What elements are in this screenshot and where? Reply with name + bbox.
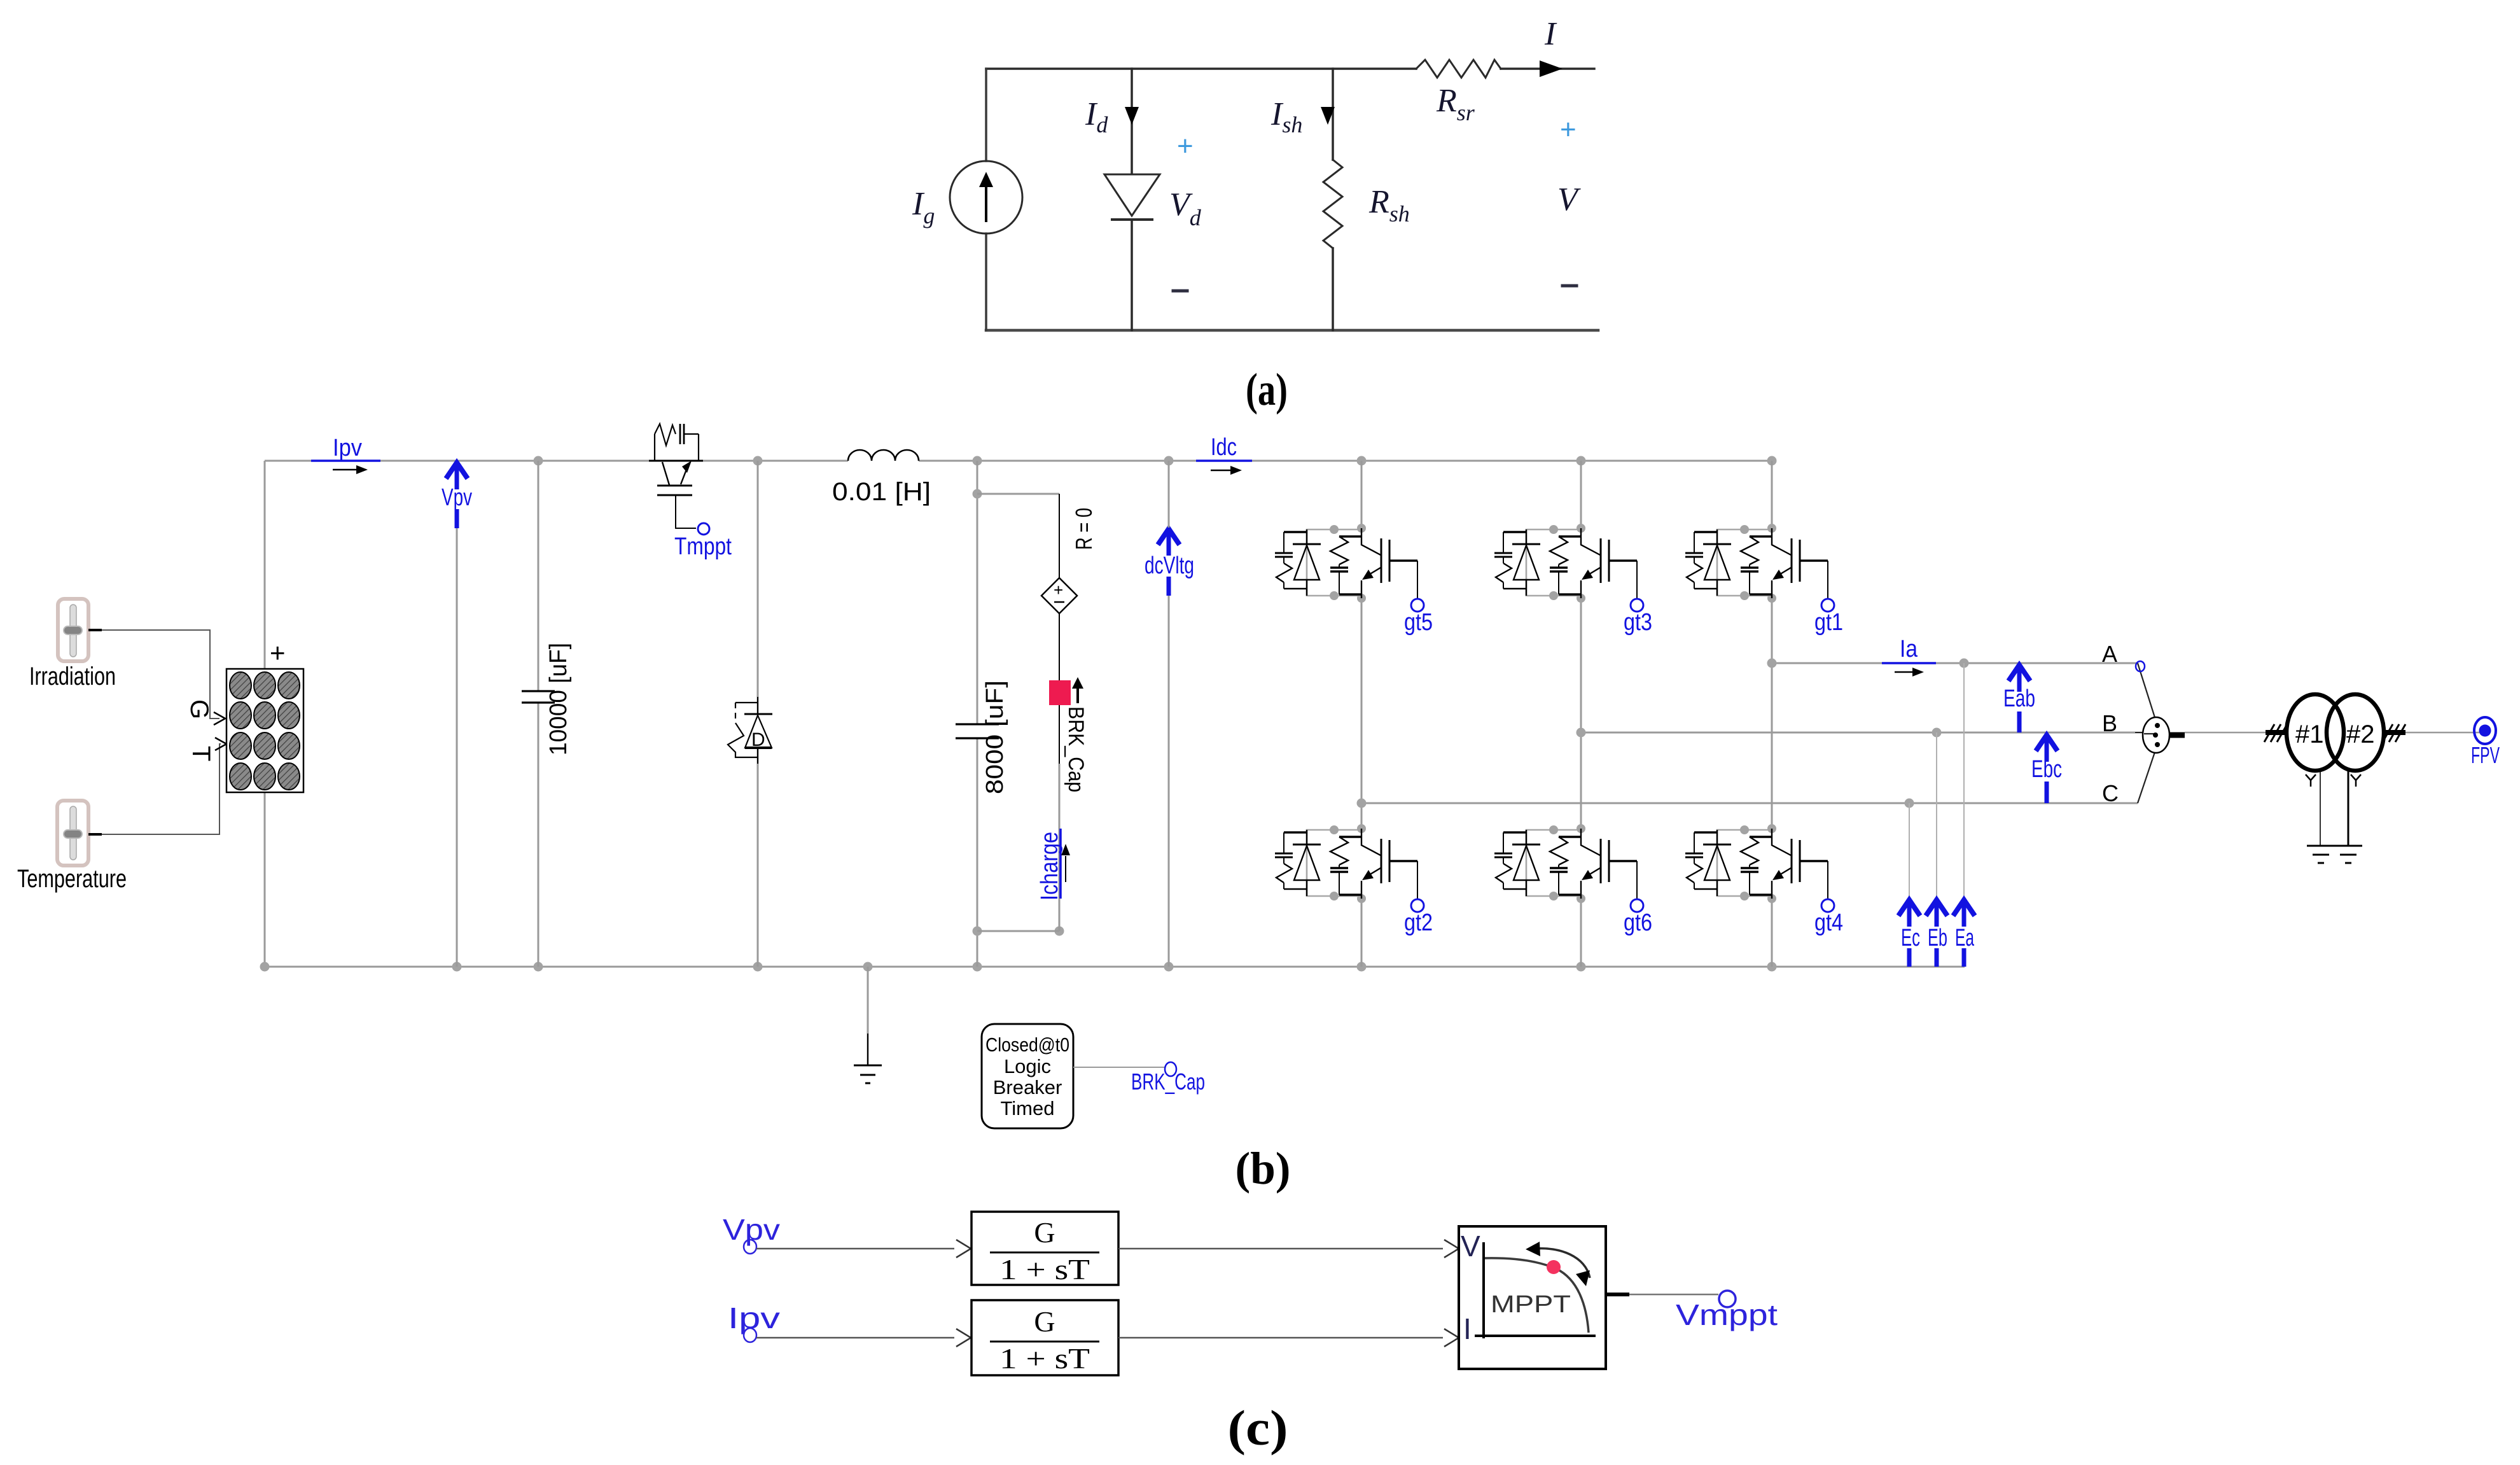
wire: phase C output bbox=[1361, 803, 2138, 804]
wire: Rsh branch vertical top bbox=[1332, 69, 1334, 160]
svg-text:1 + sT: 1 + sT bbox=[999, 1253, 1090, 1286]
svg-text:BRK_Cap: BRK_Cap bbox=[1064, 706, 1088, 792]
wire: Vpv to lag block bbox=[756, 1248, 954, 1250]
arrow Ish on Rsh branch bbox=[1321, 107, 1335, 125]
svg-text:T: T bbox=[187, 746, 215, 761]
svg-text:gt6: gt6 bbox=[1624, 909, 1652, 936]
output terminal circle bbox=[1719, 1291, 1736, 1307]
svg-text:(a): (a) bbox=[1246, 364, 1288, 415]
wire: winding 2 neutral to ground bbox=[2348, 771, 2349, 846]
voltmeter Eab arrow bbox=[2008, 665, 2030, 692]
voltmeter dcVltg arrow bbox=[1158, 529, 1180, 556]
wire: Temperature to PV T input bbox=[88, 744, 221, 834]
wire: charging source sub-branch bbox=[977, 494, 1059, 931]
current source Ig arrow bbox=[985, 181, 987, 221]
IGBT module gt2 bbox=[1275, 824, 1424, 912]
wire: PV array negative lead bbox=[264, 792, 266, 967]
svg-text:BRK_Cap: BRK_Cap bbox=[1131, 1069, 1205, 1095]
svg-text:Vpv: Vpv bbox=[723, 1213, 780, 1246]
svg-text:Idc: Idc bbox=[1211, 434, 1237, 461]
wire: Irradiation to PV G input bbox=[88, 630, 219, 718]
svg-text:Closed@t0: Closed@t0 bbox=[985, 1034, 1069, 1056]
svg-text:0.01 [H]: 0.01 [H] bbox=[832, 478, 931, 506]
svg-text:10000 [uF]: 10000 [uF] bbox=[545, 643, 572, 755]
svg-text:Vmppt: Vmppt bbox=[1676, 1298, 1778, 1331]
svg-text:#2: #2 bbox=[2346, 720, 2375, 748]
svg-text:Ec: Ec bbox=[1901, 925, 1920, 951]
svg-text:FPV: FPV bbox=[2471, 742, 2500, 768]
wire: bottom DC bus bbox=[265, 966, 1965, 968]
freewheel diode D bbox=[757, 697, 758, 764]
wire: bottom return node bbox=[986, 329, 1598, 332]
arrow I on output lead bbox=[1540, 60, 1563, 77]
voltmeter Eb arrow bbox=[1926, 900, 1947, 927]
freewheel diode snubber (dashed) bbox=[735, 702, 758, 703]
svg-text:+: + bbox=[1177, 130, 1194, 162]
svg-text:(b): (b) bbox=[1236, 1143, 1291, 1194]
wire: left branch verticals of current source Ig bbox=[985, 69, 987, 330]
wire: inverter leg 2 verticals bbox=[1580, 461, 1582, 967]
svg-text:+: + bbox=[270, 638, 286, 668]
chopper IGBT Tmppt on top bus bbox=[649, 460, 703, 462]
wire: meter to transformer bbox=[2185, 732, 2266, 733]
transformer T1 winding #2 bbox=[2327, 694, 2384, 771]
ground symbols under transformer bbox=[2307, 845, 2362, 847]
wire: MPPT output bbox=[1606, 1293, 1629, 1296]
label - of Vd bbox=[1173, 290, 1187, 293]
wire: top DC bus bbox=[265, 460, 1772, 462]
IGBT module gt5 bbox=[1275, 524, 1424, 612]
svg-text:Icharge: Icharge bbox=[1036, 832, 1063, 901]
wire: transformer to FPV bus terminal bbox=[2405, 732, 2479, 733]
PV array cells (hatched) bbox=[230, 672, 300, 790]
voltmeter Ebc arrow bbox=[2036, 735, 2057, 762]
svg-text:R = 0: R = 0 bbox=[1071, 508, 1097, 550]
svg-text:gt1: gt1 bbox=[1814, 609, 1843, 636]
svg-text:+: + bbox=[1560, 114, 1577, 145]
IGBT module gt4 bbox=[1685, 824, 1834, 912]
svg-text:V: V bbox=[1461, 1230, 1480, 1263]
IGBT module gt6 bbox=[1494, 824, 1643, 912]
wire: 10000uF capacitor branch bbox=[538, 461, 540, 967]
transfer function block G/(1+sT) upper bbox=[971, 1212, 1118, 1285]
wire: breaker logic output bbox=[1073, 1067, 1164, 1068]
svg-text:C: C bbox=[2102, 780, 2119, 806]
node o (neutral marker) bbox=[2136, 661, 2145, 671]
svg-text:A: A bbox=[2102, 641, 2117, 667]
svg-text:Eab: Eab bbox=[2003, 685, 2035, 712]
wire: diode branch vertical bottom bbox=[1131, 220, 1133, 330]
transfer function block G/(1+sT) lower bbox=[971, 1300, 1118, 1375]
junction dots on C2 branch bbox=[973, 489, 982, 499]
inductor L1 on top bus bbox=[848, 450, 919, 461]
svg-text:G: G bbox=[1034, 1216, 1055, 1249]
wire: PV array positive lead bbox=[264, 461, 266, 669]
svg-text:I: I bbox=[1463, 1312, 1472, 1345]
wire: Ipv to lag block bbox=[756, 1337, 954, 1339]
arrow beside breaker bbox=[1076, 687, 1079, 703]
wire: inverter leg 3 verticals bbox=[1771, 461, 1773, 967]
svg-text:Tmppt: Tmppt bbox=[674, 533, 732, 560]
transformer T1 left lead with hatches bbox=[2266, 730, 2287, 735]
svg-text:Logic: Logic bbox=[1004, 1055, 1051, 1077]
wire: freewheel diode branch bbox=[757, 461, 759, 967]
svg-text:Irradiation: Irradiation bbox=[29, 662, 116, 690]
svg-text:gt5: gt5 bbox=[1404, 609, 1433, 636]
svg-text:gt2: gt2 bbox=[1404, 909, 1433, 936]
wire: Rsh branch vertical bottom bbox=[1332, 248, 1334, 330]
voltmeter Vpv arrow bbox=[446, 463, 468, 489]
svg-text:MPPT: MPPT bbox=[1491, 1291, 1571, 1318]
slider control: Irradiation bbox=[58, 599, 88, 661]
voltmeter Ec arrow bbox=[1898, 900, 1920, 927]
Y symbol of winding 1 bbox=[2306, 775, 2316, 787]
wire: inverter leg 1 verticals bbox=[1361, 461, 1363, 967]
svg-text:1 + sT: 1 + sT bbox=[999, 1342, 1090, 1375]
breaker signal terminal circle bbox=[1165, 1062, 1176, 1076]
svg-text:G: G bbox=[1034, 1305, 1055, 1338]
diode D1 (triangle + bar) bbox=[1104, 174, 1160, 216]
wire: winding 1 neutral to ground bbox=[2320, 771, 2321, 846]
svg-text:B: B bbox=[2102, 710, 2117, 736]
svg-text:Ebc: Ebc bbox=[2031, 756, 2062, 783]
multimeter (3-phase node) bbox=[2143, 717, 2169, 753]
voltmeter Ea arrow bbox=[1953, 900, 1975, 927]
MPPT tracking point (red dot) bbox=[1547, 1260, 1561, 1274]
wire: Ec measurement drop bbox=[1909, 803, 1910, 898]
label - of V bbox=[1563, 284, 1577, 288]
wire: ground branch from bottom bus bbox=[867, 967, 869, 1034]
svg-text:+: + bbox=[1054, 580, 1063, 599]
svg-text:D: D bbox=[751, 729, 765, 750]
Y symbol of winding 2 bbox=[2351, 775, 2361, 787]
MPPT P-V curve bbox=[1485, 1258, 1589, 1333]
wire: 8000uF capacitor branch bbox=[977, 461, 978, 967]
PV array module box bbox=[226, 669, 303, 792]
svg-text:G: G bbox=[185, 699, 213, 719]
svg-text:Timed: Timed bbox=[1001, 1097, 1055, 1119]
svg-text:dcVltg: dcVltg bbox=[1145, 552, 1194, 579]
svg-text:(c): (c) bbox=[1228, 1400, 1288, 1455]
svg-text:Temperature: Temperature bbox=[17, 865, 127, 893]
IGBT module gt1 bbox=[1685, 524, 1834, 612]
wire: top right output lead after Rsr bbox=[1501, 67, 1594, 70]
MPPT inner axes bbox=[1475, 1242, 1596, 1338]
ground symbol bbox=[854, 1065, 882, 1067]
svg-text:I: I bbox=[1544, 16, 1557, 52]
wire: Eb measurement drop bbox=[1936, 732, 1937, 898]
IGBT module gt3 bbox=[1494, 524, 1643, 612]
wire: Ea measurement drop bbox=[1963, 663, 1965, 898]
slider control: Temperature bbox=[57, 801, 88, 866]
transformer T1 right lead with hatches bbox=[2384, 730, 2405, 735]
svg-text:Ea: Ea bbox=[1955, 925, 1975, 951]
MPPT block box bbox=[1459, 1226, 1606, 1369]
svg-text:Vpv: Vpv bbox=[442, 484, 472, 511]
resistor Rsh zigzag bbox=[1323, 160, 1342, 248]
svg-text:gt4: gt4 bbox=[1814, 909, 1843, 936]
svg-text:8000 [uF]: 8000 [uF] bbox=[982, 680, 1008, 794]
FPV external grid terminal bbox=[2474, 717, 2496, 744]
junction dots on buses bbox=[534, 456, 543, 466]
wire: phase B output bbox=[1581, 732, 2135, 734]
resistor Rsr zigzag on top wire bbox=[1416, 60, 1501, 78]
svg-text:Eb: Eb bbox=[1928, 925, 1947, 951]
svg-text:Breaker: Breaker bbox=[993, 1076, 1062, 1098]
wire: diode branch vertical top bbox=[1131, 69, 1133, 174]
svg-text:V: V bbox=[1557, 181, 1581, 218]
wire: DC link vertical bbox=[1168, 461, 1170, 967]
gate terminal circle Tmppt bbox=[698, 523, 709, 535]
timed breaker logic box bbox=[982, 1024, 1073, 1128]
capacitor C2 plates bbox=[956, 724, 999, 738]
multimeter output stub bbox=[2170, 732, 2185, 738]
current source Ig circle bbox=[950, 161, 1022, 234]
breaker BRK_Cap (red square) bbox=[1049, 680, 1071, 705]
wire: lag block to MPPT I input bbox=[1118, 1337, 1443, 1339]
wire: Vpv measurement branch bbox=[456, 528, 458, 967]
MPPT tracking arrows bbox=[1535, 1249, 1590, 1278]
transformer T1 winding #1 bbox=[2287, 694, 2344, 771]
arrow Id on diode branch bbox=[1125, 107, 1139, 125]
svg-text:Ia: Ia bbox=[1900, 636, 1918, 662]
capacitor C1 plates bbox=[522, 691, 555, 703]
wire: phase A output bbox=[1772, 662, 2138, 664]
wire: top node from current source to Rsr bbox=[986, 67, 1416, 70]
svg-text:gt3: gt3 bbox=[1624, 609, 1652, 636]
wire: lag block to MPPT V input bbox=[1118, 1248, 1443, 1250]
controlled voltage source (diamond) bbox=[1041, 578, 1077, 613]
svg-text:#1: #1 bbox=[2295, 720, 2324, 748]
svg-text:Ipv: Ipv bbox=[333, 435, 362, 461]
